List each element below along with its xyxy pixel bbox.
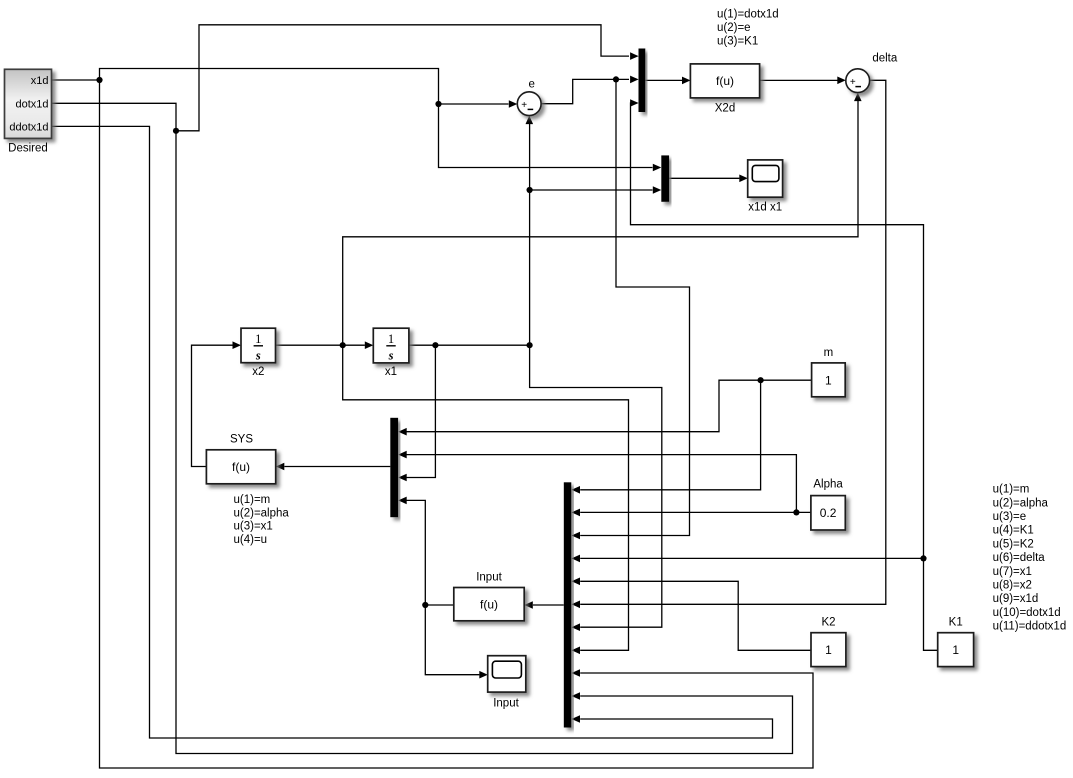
wire K1: K1 out up to mux1 input3 <box>631 103 938 650</box>
svg-text:u(2)=e: u(2)=e <box>717 22 751 34</box>
arrow into big mux input10 <box>572 692 581 700</box>
wire dotx1d top: junction up over top to mux1 input1 <box>176 25 629 131</box>
constant Alpha <box>811 479 845 531</box>
arrow into mux2 input1 <box>653 164 662 172</box>
arrow into scope x1d x1 <box>739 175 748 183</box>
arrow into big mux input3 <box>572 532 581 540</box>
wire x1d: Desired out1 to junction <box>52 79 100 81</box>
svg-text:1: 1 <box>825 374 832 388</box>
wire x1 down: to big mux input7 <box>530 345 662 627</box>
constant m <box>812 347 846 397</box>
svg-text:u(7)=x1: u(7)=x1 <box>993 566 1032 578</box>
node Alpha junction <box>793 509 799 515</box>
arrow into scope Input <box>479 671 488 679</box>
wire mux2 output to scope x1d x1 <box>669 177 739 179</box>
wire x1d upper: junction to sum e plus input and mux2 input1 <box>100 69 653 168</box>
mux4 (big mux, flipped) <box>564 482 572 727</box>
svg-text:+: + <box>850 77 856 88</box>
node e junction <box>613 76 619 82</box>
arrow into integrator x2 <box>233 341 242 349</box>
scope Input <box>488 656 526 710</box>
svg-text:SYS: SYS <box>230 434 253 446</box>
wire mux3 output to SYS <box>284 466 390 468</box>
wire m: constant m out to mux3 input1 <box>407 380 812 432</box>
svg-text:Input: Input <box>493 697 519 709</box>
node x2 junction <box>340 342 346 348</box>
arrow into mux1 input1 <box>630 52 639 60</box>
svg-text:x1d x1: x1d x1 <box>748 202 782 214</box>
node K1 junction <box>920 555 926 561</box>
svg-text:u(3)=e: u(3)=e <box>993 511 1027 523</box>
svg-text:+: + <box>521 100 527 111</box>
wire x1 up: to sum e minus input and mux2 input2 <box>530 124 653 345</box>
integrator x2 <box>241 328 276 378</box>
svg-text:u(10)=dotx1d: u(10)=dotx1d <box>993 607 1061 619</box>
fcn block SYS <box>206 434 275 484</box>
wire e: sum e output to mux1 input2 <box>541 79 629 103</box>
constant K2 <box>811 616 846 666</box>
svg-text:u(1)=m: u(1)=m <box>234 494 271 506</box>
svg-text:s: s <box>255 349 261 363</box>
svg-text:u(3)=K1: u(3)=K1 <box>717 36 758 48</box>
svg-text:1: 1 <box>388 332 394 346</box>
integrator x1 <box>373 328 409 378</box>
svg-text:f(u): f(u) <box>480 598 498 612</box>
annotation SYS inputs <box>234 494 290 546</box>
wire x1 to mux3 input3 <box>407 345 436 477</box>
arrow into big mux input8 <box>572 647 581 655</box>
arrow into X2d input <box>682 77 691 85</box>
wire u: Input f(u) out to junction <box>425 604 454 606</box>
arrow into mux3 input2 <box>398 451 407 459</box>
wire x1d lower: junction down, across bottom, up to big mux input9 <box>100 80 814 768</box>
wire e branch: down to big mux input3 <box>580 79 689 535</box>
wire delta: sum delta output down to big mux input6 <box>580 80 886 604</box>
wire Alpha branch: to mux3 input2 <box>407 455 797 513</box>
scope x1d x1 <box>748 160 783 214</box>
svg-text:u(8)=x2: u(8)=x2 <box>993 580 1032 592</box>
wire x1: integrator x1 out across junctions <box>409 344 530 346</box>
arrow into mux3 input1 <box>398 428 407 436</box>
svg-text:Input: Input <box>476 572 502 584</box>
svg-text:u(11)=ddotx1d: u(11)=ddotx1d <box>993 621 1067 633</box>
arrow into big mux input11 <box>572 715 581 723</box>
wire u up: to mux3 input4 <box>407 500 426 605</box>
svg-text:x1: x1 <box>385 366 397 378</box>
arrow into big mux input5 <box>572 578 581 586</box>
arrow into SYS input <box>276 463 285 471</box>
svg-text:1: 1 <box>255 332 261 346</box>
annotation big mux inputs <box>993 484 1067 633</box>
sum delta <box>846 52 898 92</box>
svg-text:u(6)=delta: u(6)=delta <box>993 552 1046 564</box>
arrow into mux1 input2 <box>630 76 639 84</box>
svg-text:u(4)=K1: u(4)=K1 <box>993 525 1034 537</box>
svg-text:x2: x2 <box>252 366 264 378</box>
svg-text:1: 1 <box>952 643 959 657</box>
node u junction <box>422 602 428 608</box>
svg-text:x1d: x1d <box>31 75 49 87</box>
arrow into big mux input7 <box>572 623 581 631</box>
wire SYS out: up to integrator x2 input <box>192 345 233 466</box>
fcn block X2d <box>690 64 759 115</box>
svg-text:u(2)=alpha: u(2)=alpha <box>234 507 290 519</box>
svg-text:1: 1 <box>825 643 832 657</box>
arrow into big mux input6 <box>572 601 581 609</box>
sum e <box>517 79 541 116</box>
node x1-mux2 junction <box>527 187 533 193</box>
wire dotx1d: Desired out2 down <box>52 103 177 131</box>
svg-text:s: s <box>388 349 394 363</box>
arrow into big mux input2 <box>572 509 581 517</box>
svg-text:m: m <box>824 347 834 359</box>
arrow into mux3 input4 <box>398 497 407 505</box>
mux2 (scope mux) <box>661 155 669 201</box>
svg-text:f(u): f(u) <box>232 460 250 474</box>
wire x2 branch down: to big mux input8 <box>343 345 629 650</box>
svg-text:e: e <box>528 79 534 91</box>
svg-text:delta: delta <box>872 52 898 64</box>
svg-text:K1: K1 <box>949 616 963 628</box>
wire dotx1d bottom: junction down, across bottom, up to big mux input10 <box>176 131 793 754</box>
svg-text:u(9)=x1d: u(9)=x1d <box>993 593 1039 605</box>
annotation X2d inputs <box>717 9 779 48</box>
arrow into sum delta plus <box>837 77 846 85</box>
svg-text:Alpha: Alpha <box>813 479 843 491</box>
svg-text:u(3)=x1: u(3)=x1 <box>234 521 273 533</box>
wire X2d to sum delta <box>760 79 838 81</box>
wire Alpha: constant out to big mux input2 <box>580 511 811 513</box>
arrow into mux1 input3 <box>630 99 639 107</box>
arrow into sum e plus <box>509 100 518 108</box>
arrow into mux2 input2 <box>653 186 662 194</box>
node x1 junction B <box>527 342 533 348</box>
svg-text:u(1)=m: u(1)=m <box>993 484 1030 496</box>
ARROWHEADS <box>233 52 862 723</box>
wire K2: constant out to big mux input5 <box>580 581 811 650</box>
svg-text:u(5)=K2: u(5)=K2 <box>993 538 1034 550</box>
fcn block Input <box>454 572 524 621</box>
svg-text:ddotx1d: ddotx1d <box>9 122 48 134</box>
node x1 junction A <box>432 342 438 348</box>
wire x2: integrator x2 out to integrator x1 <box>276 344 365 346</box>
node dotx1d junction <box>173 128 179 134</box>
wire m branch: to big mux input1 <box>580 380 760 490</box>
wire u down: to scope Input <box>425 605 479 675</box>
svg-text:f(u): f(u) <box>716 74 734 88</box>
wire K1 branch: junction to big mux input4 <box>580 557 923 559</box>
svg-text:K2: K2 <box>821 616 835 628</box>
wire x2 branch up: to sum delta minus input <box>343 101 858 345</box>
svg-text:u(2)=alpha: u(2)=alpha <box>993 497 1049 509</box>
arrow into sum e minus <box>526 116 534 125</box>
arrow into big mux input9 <box>572 669 581 677</box>
arrow into big mux input1 <box>572 486 581 494</box>
constant K1 <box>938 616 974 666</box>
wire ddotx1d: Desired out3 across bottom to big mux input11 <box>52 126 773 738</box>
wire big mux output to Input f(u) <box>533 604 564 606</box>
node x1d junction <box>96 77 102 83</box>
wire mux1 to X2d <box>645 79 682 81</box>
svg-text:Desired: Desired <box>8 143 48 155</box>
arrow into mux3 input3 <box>398 474 407 482</box>
svg-text:u(1)=dotx1d: u(1)=dotx1d <box>717 9 779 21</box>
subsystem Desired <box>5 69 52 154</box>
svg-text:dotx1d: dotx1d <box>15 98 48 110</box>
arrow into big mux input4 <box>572 555 581 563</box>
svg-text:X2d: X2d <box>715 103 735 115</box>
arrow into sum delta minus <box>854 93 862 102</box>
svg-text:u(4)=u: u(4)=u <box>234 534 268 546</box>
mux3 (SYS mux, flipped) <box>390 418 398 517</box>
node x1d-e junction <box>435 101 441 107</box>
svg-text:0.2: 0.2 <box>820 506 837 520</box>
node m junction <box>758 377 764 383</box>
arrow into integrator x1 <box>365 341 374 349</box>
mux1 (top mux) <box>639 49 646 113</box>
arrow into Input f(u) input <box>524 601 533 609</box>
